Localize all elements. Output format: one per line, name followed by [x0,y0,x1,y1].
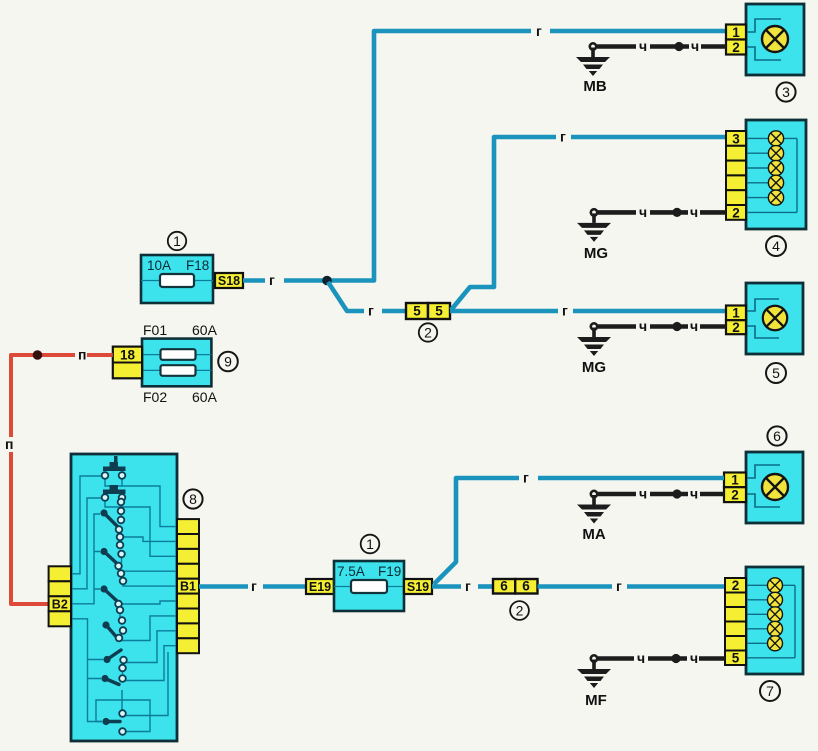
junction on MG upper wire [672,208,681,217]
connector 18 of fuse block [113,347,142,379]
lamp in connector 5 [763,306,787,330]
wire r: S19 to connector 2 (6|6) [432,584,493,589]
svg-text:3: 3 [782,84,790,100]
connector S19 [404,579,432,594]
svg-text:п: п [5,436,13,452]
svg-text:2: 2 [732,320,740,335]
junction on MF wire [671,654,680,663]
svg-text:9: 9 [224,354,232,370]
label 7 (circled) [760,681,780,701]
svg-text:MB: MB [583,78,606,95]
svg-text:S19: S19 [407,580,429,594]
label 4 (circled) [766,236,786,256]
wire r: S18 to riser and connector 3 [243,31,727,281]
wire r: S19 riser to connector 6 [434,478,724,584]
ground MG (upper) [577,209,611,242]
black wire: ground MG to pin 2 of connector 4 [598,210,726,215]
label 1 (circled, lower) [361,535,380,554]
pin 1 of connector 3 [726,25,746,41]
junction on red wire [33,350,43,360]
fuse symbol F02 [161,365,196,376]
svg-text:2: 2 [731,488,739,503]
wire p (red): feed to fuse block 18 and down to B2 [11,355,113,604]
lever switches and contact studs of block 8 [104,513,121,722]
svg-text:4: 4 [772,238,780,254]
connector S18 [215,273,243,288]
label 3 (circled) [776,82,795,101]
svg-text:г: г [269,272,275,288]
label 2 (circled) [419,323,437,341]
pins of connector 4 [726,131,746,221]
junction on MA wire [672,489,681,498]
svg-text:6: 6 [773,428,781,444]
lamps in connector 7 [767,578,782,651]
black wire: ground MG to pin 2 of connector 5 [598,324,726,329]
svg-text:F19: F19 [378,564,401,579]
svg-text:B2: B2 [52,598,68,612]
svg-text:2: 2 [732,40,740,55]
svg-text:MF: MF [585,692,607,709]
lamps in connector 4 [768,131,783,205]
connector 2 lower (6|6) [493,579,538,594]
svg-text:18: 18 [120,348,136,363]
ground MG (lower) [577,323,611,356]
connector 2 (5|5) [406,303,450,319]
pins of connector 7 [725,578,746,666]
svg-text:7.5A: 7.5A [337,564,365,579]
svg-text:г: г [616,578,622,594]
fuse F19 block (component 1 lower) [334,561,404,611]
wire r: connector 2 to cluster 7 [538,584,726,589]
svg-text:MG: MG [582,359,606,376]
svg-text:E19: E19 [309,580,331,594]
lamp in connector 3 [762,26,788,52]
pins B1 side of block 8 [177,519,199,653]
wire r: connector 2 to lamp 5 [450,309,727,314]
wire r: B1 to E19 [199,584,306,589]
svg-text:г: г [251,578,257,594]
svg-text:5: 5 [732,651,740,666]
black wire: ground MF to pin 5 of connector 7 [598,656,725,661]
connector 4 housing (lamp cluster) [746,120,806,229]
black wire: ground MA to pin 2 of connector 6 [598,492,724,497]
svg-text:8: 8 [189,491,197,507]
svg-text:ч: ч [690,650,698,666]
fuse block (component 9) [142,322,218,405]
svg-text:1: 1 [366,536,374,552]
label 9 (circled) [218,352,238,372]
wire r: connector 2 riser to cluster 4 [451,137,727,310]
internal traces of switch block 8 [71,476,177,732]
pin 2 of connector 6 [724,487,746,502]
svg-text:1: 1 [732,25,740,40]
junction on S18 wire [322,276,332,286]
svg-text:ч: ч [690,318,698,334]
svg-text:ч: ч [691,38,699,54]
svg-text:10A: 10A [147,258,171,273]
svg-text:2: 2 [732,578,740,593]
pin 2 of connector 3 [726,40,746,56]
connector 6 housing (lamp unit) [746,452,803,523]
switch block housing (component 8) [71,454,177,741]
svg-text:ч: ч [639,204,647,220]
junction on MG lower wire [672,322,681,331]
svg-text:F02: F02 [143,389,167,405]
connector 3 housing (lamp unit) [746,4,804,75]
fuse F18 block (component 1) [141,255,213,303]
fuse symbol F18 [160,274,194,287]
label 8 (circled) [183,489,202,508]
svg-text:2: 2 [424,325,432,341]
svg-text:6: 6 [522,579,530,594]
svg-text:г: г [465,578,471,594]
svg-text:B1: B1 [180,580,196,594]
svg-text:г: г [523,470,529,486]
ground MA [577,491,611,524]
svg-text:ч: ч [690,204,698,220]
svg-text:60A: 60A [192,389,218,405]
svg-text:1: 1 [732,306,740,321]
svg-text:1: 1 [173,233,181,249]
pins B2 side of block 8 [49,566,71,626]
pin 1 of connector 6 [724,473,746,488]
svg-text:5: 5 [413,304,421,319]
svg-text:г: г [368,303,374,319]
svg-text:F01: F01 [143,322,167,338]
svg-text:ч: ч [637,650,645,666]
svg-text:г: г [562,303,568,319]
connector E19 [306,579,334,594]
lamp in connector 6 [762,474,788,500]
svg-text:ч: ч [639,38,647,54]
fuse symbol F01 [161,349,196,360]
svg-text:1: 1 [731,473,739,488]
svg-text:3: 3 [732,132,740,147]
ground MB [576,43,610,76]
connector 7 housing (lamp cluster) [746,567,803,674]
label 1 (circled) [168,232,186,250]
label 2 (circled, lower) [510,601,529,620]
svg-text:F18: F18 [186,258,209,273]
svg-text:п: п [78,347,86,363]
junction on MB wire [674,42,683,51]
svg-text:г: г [536,23,542,39]
label 5 (circled) [766,363,786,383]
pin 2 of connector 5 [726,320,746,335]
black wire: ground MB to pin 2 of connector 3 [597,44,726,49]
svg-text:ч: ч [690,486,698,502]
push-button switch contacts (top of block 8) [102,456,126,501]
pin 1 of connector 5 [726,306,746,321]
svg-text:2: 2 [732,206,740,221]
svg-text:5: 5 [772,365,780,381]
svg-text:MG: MG [584,245,608,262]
svg-text:7: 7 [766,683,774,699]
svg-text:2: 2 [516,603,524,619]
svg-text:г: г [560,129,566,145]
svg-text:5: 5 [435,304,443,319]
svg-text:MA: MA [582,526,605,543]
ground MF [577,655,611,688]
svg-text:ч: ч [639,318,647,334]
fuse symbol F19 [351,580,387,593]
svg-text:6: 6 [500,579,508,594]
svg-text:ч: ч [639,486,647,502]
label 6 (circled) [767,426,786,445]
svg-text:S18: S18 [218,274,240,288]
svg-text:60A: 60A [192,322,218,338]
connector 5 housing (lamp unit) [746,283,803,354]
wire r: branch junction to connector 2 [328,282,406,311]
